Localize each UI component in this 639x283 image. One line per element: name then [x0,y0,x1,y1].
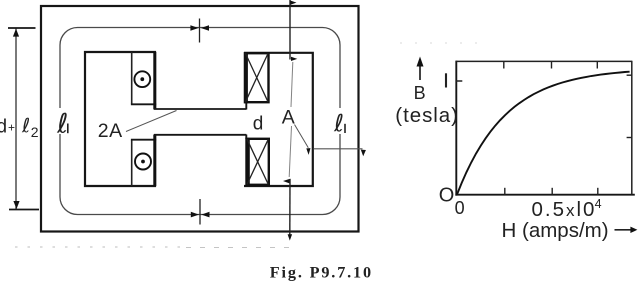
bottom ticks [504,188,506,195]
upper hatched winding box (current into page) [245,53,269,102]
leader from 2A to crossbar [126,111,177,132]
svg-text:+: + [8,121,15,135]
flux path (rounded rectangle centerline) [60,28,340,215]
reference line arrowhead at pole top [291,57,297,61]
crossbar bottom edge [154,134,246,136]
top flux marker left arrowhead [190,25,198,31]
top ticks [503,61,505,68]
lower coil window box [131,140,133,186]
bottom flux marker left arrowhead [191,212,199,218]
H core left assembly outline [85,52,155,186]
outer core rectangle [41,6,359,232]
reference line top arrowhead [290,1,296,5]
svg-text:0.5xl0: 0.5xl0 [532,198,597,221]
svg-text:(tesla): (tesla) [395,104,459,127]
top flux marker tick [199,19,201,43]
H core right assembly outline [244,53,313,186]
reference line faint segment lower [289,126,291,177]
white gap on flux line for right l1 label [330,108,349,134]
svg-text:H (amps/m): H (amps/m) [502,219,609,242]
svg-text:2A: 2A [98,120,123,142]
left dimension bottom tick [9,209,39,211]
label l1 left (on flux line) [57,113,67,133]
svg-text:d: d [0,117,7,138]
left arrowhead at pole bottom [283,179,291,184]
left dimension down arrowhead [13,201,19,209]
section reference line above core [289,0,291,60]
leader down arrowhead [306,148,310,155]
left tick for B=1 [456,80,462,82]
left dimension line d+l2 [15,28,17,210]
crossbar top edge [154,108,246,110]
B-H saturation curve [457,72,630,195]
side pointer arrowhead [361,150,366,157]
left dimension top tick [8,27,36,29]
bottom flux marker tick [199,199,201,225]
reference line bottom segment [289,179,291,236]
right ticks [627,74,632,76]
upper coil window box [131,52,133,104]
svg-text:Fig. P9.7.10: Fig. P9.7.10 [270,264,373,282]
top flux marker right arrowhead [201,25,209,31]
right assembly left-edge steps at crossbar [245,103,247,110]
svg-text:0: 0 [455,198,465,218]
B-H graph top border [456,60,632,62]
label l1 right (on flux line) [334,114,343,132]
left dimension up arrowhead [13,29,19,37]
B-H graph right border [631,61,633,195]
svg-text:A: A [282,107,295,129]
leader from A to pole face [295,125,309,148]
lower coil circle (current out of page) [135,154,151,170]
svg-text:B: B [414,83,426,103]
svg-text:O: O [439,184,455,206]
white gap on flux line for left l1 label [53,108,71,134]
lower hatched winding box (current into page) [247,139,269,185]
faint scan artifact dashes [15,246,180,248]
B-H graph y-axis [455,61,457,196]
reference line bottom down arrowhead [288,234,293,240]
label 1 on B axis [445,73,447,87]
bottom flux marker right arrowhead [201,212,209,218]
upper coil circle (current out of page) [134,71,150,87]
side pointer line [314,148,363,150]
B-H graph x-axis [455,194,634,196]
B axis up arrow [419,66,421,80]
svg-text:2: 2 [31,124,39,140]
svg-text:d: d [253,114,264,135]
svg-text:4: 4 [595,197,602,211]
H axis right arrow [615,229,633,231]
reference line faint segment upper [291,62,293,107]
